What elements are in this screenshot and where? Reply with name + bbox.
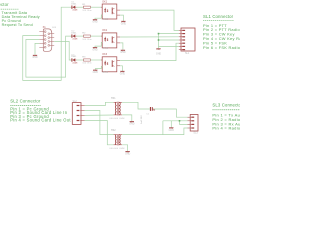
pin SL1-2 [179, 33, 183, 35]
capacitor C1 [141, 107, 155, 124]
svg-text:4N35: 4N35 [102, 72, 109, 74]
pin SL1-7 [179, 49, 183, 51]
optocoupler OK3 4N35 [101, 54, 120, 74]
pin X1-8 [50, 41, 55, 43]
pin X1-1 [39, 31, 44, 33]
svg-text:SL2 Connector: SL2 Connector [10, 98, 41, 103]
svg-text:1N41: 1N41 [71, 56, 77, 58]
svg-text:SL1: SL1 [185, 52, 190, 55]
transformer TR1 600:600 Ohm [110, 98, 125, 120]
pin SL2-4 [80, 120, 84, 122]
svg-text:600:600 OHM: 600:600 OHM [110, 148, 125, 150]
ground GND at OK3 LED [93, 70, 99, 74]
resistor R1 100 Ohm [82, 4, 92, 12]
wire net FSK: OK3 to SL1 pin5 [120, 43, 179, 60]
wire SL1 pin6 gnd [159, 45, 179, 47]
wire OK1 cathode to ground [95, 15, 102, 19]
svg-text:100 Ohm: 100 Ohm [82, 63, 92, 65]
svg-text:GND: GND [169, 129, 175, 132]
ground GND at OK1 LED [92, 20, 98, 24]
wire SL3 pin2 [163, 120, 188, 122]
ground GND under X1 [32, 55, 38, 59]
pin SL3-2 [188, 120, 192, 122]
ground GND at OK2 LED [92, 48, 98, 52]
svg-text:DB9 Connector: DB9 Connector [0, 2, 9, 7]
wire D1 to R1 [76, 6, 83, 8]
pin SL1-5 [179, 42, 183, 44]
optocoupler OK2 4N35 [101, 30, 120, 50]
junction dot SL1 bus at pin4 [158, 39, 160, 41]
pin SL2-3 [80, 115, 84, 117]
pin SL1-4 [179, 39, 183, 41]
svg-text:GND: GND [32, 56, 38, 59]
note DB9 pin description block [0, 2, 40, 27]
svg-text:OK2: OK2 [102, 30, 108, 32]
wire SL2 pin1 to TR1 top [85, 102, 114, 105]
wire OK3 emitter to ground [120, 66, 122, 71]
connector SL2 [72, 100, 84, 124]
wire OK3 cathode to ground [95, 66, 102, 70]
ground GND at TR2 [125, 152, 131, 156]
wire OK2 emitter to ground [120, 43, 123, 50]
wire net CWKEY: OK2 to SL1 pin3 [120, 36, 179, 38]
note SL1 pin description block [203, 14, 257, 50]
svg-text:1N41: 1N41 [71, 3, 77, 5]
svg-text:GND: GND [121, 22, 127, 25]
pin SL3-1 [188, 116, 192, 118]
svg-text:GND: GND [120, 51, 126, 54]
wire SL1 pin2 gnd [159, 33, 179, 35]
ground GND of SL3 bus [169, 128, 175, 132]
wire SL2 pin2 to TR2 top [85, 111, 114, 135]
wire D3 to R3 [76, 59, 83, 61]
connector SL3 [188, 115, 199, 135]
svg-text:100 Ohm: 100 Ohm [82, 39, 92, 41]
wire gnd stub at SL3 [170, 121, 172, 128]
svg-text:4148: 4148 [72, 39, 78, 41]
wire R2 to OK2 [90, 35, 102, 37]
svg-text:1uF 35V: 1uF 35V [141, 115, 143, 124]
diode D3 1N4148 [71, 54, 78, 64]
wire TR2 bottom to ground [122, 145, 128, 151]
pin SL1-1 [179, 29, 183, 31]
svg-text:4148: 4148 [72, 10, 78, 12]
ground GND at OK3 emitter [120, 71, 126, 75]
pin SL2-2 [80, 110, 84, 112]
wire D2 to R2 [76, 35, 83, 37]
wire SL2 pin4 to TR2 bottom [85, 121, 114, 145]
pin SL1-3 [179, 36, 183, 38]
pin X1-3 [39, 39, 44, 41]
svg-text:OK1: OK1 [102, 1, 108, 3]
pin X1-9 [50, 44, 55, 46]
wire SL2 pin3 to TR1 bottom [85, 114, 114, 116]
svg-text:GND: GND [129, 123, 135, 126]
svg-text:TR1: TR1 [111, 98, 116, 100]
svg-text:GND: GND [120, 72, 126, 75]
svg-text:4N35: 4N35 [102, 19, 109, 21]
svg-text:OK3: OK3 [102, 54, 108, 56]
svg-text:Pin 6 = FSK Radio Gnd: Pin 6 = FSK Radio Gnd [203, 45, 240, 50]
wire SL3 pin3 gnd [180, 121, 188, 125]
svg-text:4148: 4148 [72, 63, 78, 65]
svg-text:GND: GND [156, 53, 162, 56]
svg-text:Pin 4 = Sound Card Line Out: Pin 4 = Sound Card Line Out [10, 118, 71, 123]
svg-text:SL3: SL3 [193, 131, 198, 134]
ground GND at OK2 emitter [120, 50, 126, 54]
pin SL3-3 [188, 123, 192, 125]
wire TR1 bottom to ground [122, 115, 132, 121]
ground GND at TR1 [129, 122, 135, 126]
svg-text:Pin 4 = Radio Gnd: Pin 4 = Radio Gnd [212, 126, 240, 131]
wire SL1 pin4 gnd [159, 39, 179, 41]
svg-text:GND: GND [92, 49, 98, 52]
wire R1 to OK1 [90, 6, 102, 8]
svg-text:GND: GND [125, 153, 131, 156]
wire TR2 top to SL3 pin4 [122, 128, 187, 135]
wire TR1 top to C1 [122, 102, 150, 109]
note SL3 pin description block [212, 102, 250, 130]
wire net DTR: X1 to D2 routed around bottom [26, 36, 72, 77]
svg-text:1N41: 1N41 [71, 32, 77, 34]
junction dot SL1 bus at pin2 [158, 33, 160, 35]
diode D2 1N4148 [71, 30, 78, 40]
pin SL1-6 [179, 45, 183, 47]
svg-text:GND: GND [93, 71, 99, 74]
transformer TR2 600:600 Ohm [110, 130, 125, 150]
connector X1 DB9 [39, 26, 56, 51]
pin SL3-4 [188, 127, 192, 129]
svg-text:Pin 7 = Request To Send: Pin 7 = Request To Send [0, 23, 33, 27]
diode D1 1N4148 [71, 2, 78, 12]
wire OK1 emitter to ground [120, 15, 123, 21]
connector SL1 [179, 28, 195, 55]
ground GND at OK1 emitter [121, 21, 127, 25]
pin X1-2 [39, 35, 44, 37]
wire X1 pin4 to ground [35, 43, 39, 55]
wire TR2 branch up [162, 121, 164, 135]
wire C1 to SL3 pin1 [154, 109, 188, 117]
resistor R2 100 Ohm [82, 33, 92, 41]
svg-text:SL1 Connector: SL1 Connector [203, 14, 234, 19]
note SL2 pin description block [10, 98, 71, 122]
svg-text:4N35: 4N35 [102, 48, 109, 50]
junction dot SL3 bus [179, 120, 181, 122]
wire SL1 ground bus vertical [158, 34, 160, 49]
optocoupler OK1 4N35 [101, 1, 120, 21]
wire net TXD: X1 to D3 [54, 42, 71, 61]
svg-text:GND: GND [92, 21, 98, 24]
resistor R3 100 Ohm [82, 57, 92, 65]
ground GND of SL1 bus [156, 49, 162, 56]
pin X1-6 [50, 33, 55, 35]
svg-text:100 Ohm: 100 Ohm [82, 10, 92, 12]
wire OK2 cathode to ground [95, 43, 102, 48]
pin X1-4 [39, 42, 44, 44]
svg-text:600:600 OHM: 600:600 OHM [110, 118, 125, 120]
wire net PTT: OK1 to SL1 pin1 [120, 10, 179, 30]
svg-text:TR2: TR2 [111, 130, 116, 132]
wire R3 to OK3 [90, 59, 102, 61]
pin X1-5 [39, 46, 44, 48]
svg-text:SL2: SL2 [73, 100, 78, 103]
wire net RTS: X1 to D1 routed around bottom [23, 7, 72, 80]
pin X1-7 [50, 37, 55, 39]
pin SL2-1 [80, 105, 84, 107]
svg-text:SL3 Connector: SL3 Connector [212, 102, 240, 107]
